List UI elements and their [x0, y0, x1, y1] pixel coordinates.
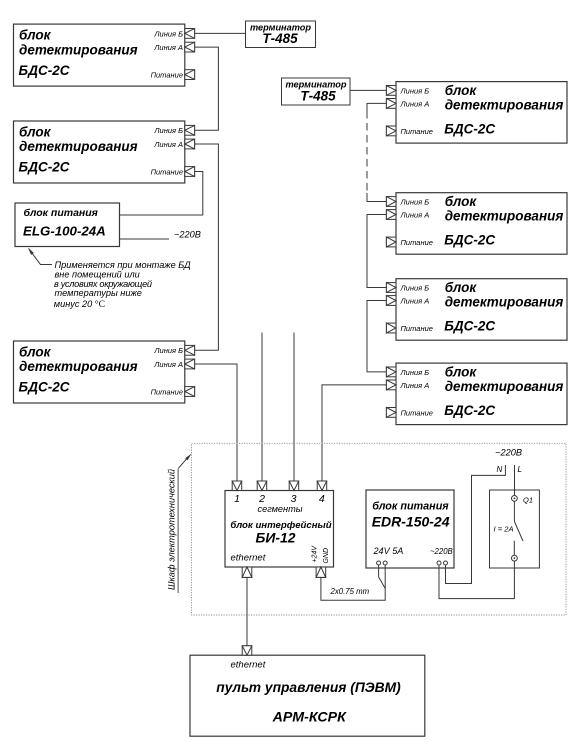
svg-text:блок: блок [19, 124, 52, 139]
пульт управления (ПЭВМ) АРМ-КСРК [190, 655, 425, 736]
svg-text:Питание: Питание [151, 167, 183, 176]
pin Линия А (block2) [185, 139, 195, 149]
блок детектирования БДС-2С right #1 [396, 82, 567, 144]
wire rblock1 Линия А to rblock2 Линия Б (dashed middle) [367, 103, 386, 111]
wire rblock3 Линия А to rblock4 Линия Б [367, 301, 386, 372]
svg-text:блок: блок [445, 83, 478, 98]
svg-text:L: L [518, 465, 522, 474]
note text (application note) [54, 260, 191, 310]
svg-text:пульт управления (ПЭВМ): пульт управления (ПЭВМ) [216, 680, 401, 695]
svg-text:4: 4 [319, 493, 325, 505]
svg-text:БДС-2С: БДС-2С [19, 63, 70, 78]
svg-text:БДС-2С: БДС-2С [19, 380, 70, 395]
wire block2 Линия А to block3 Линия Б [195, 144, 219, 350]
svg-text:блок: блок [19, 344, 52, 359]
svg-text:ethernet: ethernet [231, 659, 266, 670]
Q1 switch blade [514, 501, 523, 555]
connector segment 4 (БИ-12 top) [317, 481, 327, 491]
wire block2 Питание to ELG [120, 172, 203, 216]
svg-text:БДС-2С: БДС-2С [444, 403, 495, 418]
блок детектирования БДС-2С right #4 [396, 363, 567, 425]
svg-text:Линия А: Линия А [153, 360, 183, 369]
блок питания EDR-150-24 [366, 490, 454, 568]
svg-text:БИ-12: БИ-12 [256, 530, 296, 546]
svg-text:~220В: ~220В [430, 547, 453, 556]
svg-text:минус 20 °С: минус 20 °С [54, 299, 105, 310]
wire 24V from EDR to БИ-12 +24V GND [321, 565, 385, 600]
pin Линия А (rblock1) [386, 99, 396, 109]
svg-text:N: N [497, 465, 503, 474]
svg-text:детектирования: детектирования [445, 295, 564, 310]
svg-text:детектирования: детектирования [445, 98, 564, 113]
svg-text:Питание: Питание [401, 127, 433, 136]
wire stub segment 2 [261, 333, 263, 482]
connector segment 3 (БИ-12 top) [289, 481, 299, 491]
pin Линия Б (block3) [185, 345, 195, 355]
connector segment 1 (БИ-12 top) [232, 481, 242, 491]
svg-text:Т-485: Т-485 [300, 89, 336, 104]
pin Линия Б (rblock1) [386, 86, 396, 96]
блок питания ELG-100-24A [15, 203, 120, 247]
pin Питание (rblock3) [386, 323, 396, 333]
wire block1 Линия Б to терминатор1 [195, 32, 246, 34]
pin Питание (block3) [185, 387, 195, 397]
wire ~220В stub from ELG [120, 238, 170, 240]
терминатор Т-485 #1 [246, 21, 316, 48]
svg-text:блок питания: блок питания [372, 501, 449, 513]
svg-text:детектирования: детектирования [19, 359, 138, 374]
svg-text:Линия Б: Линия Б [400, 197, 430, 206]
svg-text:24V 5A: 24V 5A [373, 546, 404, 556]
шкаф электротехнический dashed cabinet [192, 443, 567, 615]
svg-text:БДС-2С: БДС-2С [19, 160, 70, 175]
wire right block4 Линия А to БИ-12 segment 4 [322, 385, 386, 481]
svg-text:ethernet: ethernet [231, 553, 266, 564]
wire ethernet БИ-12 to пульт [246, 577, 248, 646]
wire block3 Линия А to БИ-12 segment 1 [195, 364, 237, 481]
svg-text:Линия А: Линия А [400, 210, 430, 219]
svg-text:ELG-100-24A: ELG-100-24A [23, 224, 106, 239]
svg-text:блок питания: блок питания [24, 207, 98, 219]
wire stub segment 3 [293, 333, 295, 482]
svg-text:~220В: ~220В [174, 230, 201, 240]
leader arrow to note [29, 249, 53, 265]
svg-text:Питание: Питание [151, 387, 183, 396]
svg-text:~220В: ~220В [495, 448, 522, 458]
svg-text:блок: блок [445, 365, 478, 380]
connector segment 2 (БИ-12 top) [257, 481, 267, 491]
pin Питание (rblock1) [386, 126, 396, 136]
pin Линия А (rblock2) [386, 210, 396, 220]
wire L from Q1 to EDR ~220В [439, 561, 514, 599]
connector ethernet (пульт) [242, 646, 252, 655]
wire терминатор2 to rblock1 Линия Б [350, 89, 386, 91]
блок детектирования БДС-2С #2 (mid-left) [14, 121, 185, 183]
svg-text:I = 2A: I = 2A [494, 525, 514, 534]
svg-text:Линия Б: Линия Б [153, 126, 183, 135]
wire rblock2 Линия А to rblock3 Линия Б [367, 215, 386, 288]
svg-text:сегменты: сегменты [257, 504, 302, 514]
svg-text:Линия А: Линия А [153, 140, 183, 149]
svg-text:БДС-2С: БДС-2С [444, 122, 495, 137]
svg-text:детектирования: детектирования [445, 379, 564, 394]
pin Линия Б (rblock3) [386, 283, 396, 293]
wire L input [514, 465, 516, 495]
svg-text:EDR-150-24: EDR-150-24 [372, 514, 450, 530]
svg-text:Линия Б: Линия Б [400, 368, 430, 377]
connector ethernet (БИ-12 bottom) [242, 567, 252, 577]
arrow to cabinet corner [178, 459, 186, 468]
svg-text:Т-485: Т-485 [262, 31, 298, 46]
svg-text:детектирования: детектирования [19, 42, 138, 57]
svg-text:2x0.75 mm: 2x0.75 mm [330, 587, 370, 596]
svg-text:температуры ниже: температуры ниже [55, 288, 142, 298]
автомат Q1 box [490, 490, 540, 568]
svg-text:детектирования: детектирования [19, 139, 138, 154]
pin Питание (rblock4) [386, 408, 396, 418]
svg-text:БДС-2С: БДС-2С [444, 319, 495, 334]
svg-text:Питание: Питание [401, 238, 433, 247]
svg-text:Линия Б: Линия Б [400, 86, 430, 95]
wire block1 Линия А to block2 Линия Б [195, 47, 219, 130]
svg-text:БДС-2С: БДС-2С [444, 233, 495, 248]
pin Линия Б (block1) [185, 29, 195, 39]
блок детектирования БДС-2С right #3 [396, 279, 567, 341]
svg-text:Шкаф электротехнический: Шкаф электротехнический [167, 469, 177, 590]
pin Линия А (block3) [185, 359, 195, 369]
terminal 24V (EDR) [377, 561, 388, 565]
pin Питание (rblock2) [386, 237, 396, 247]
блок детектирования БДС-2С #1 (top-left) [14, 24, 185, 86]
Q1 bottom terminal [512, 555, 518, 561]
терминатор Т-485 #2 [282, 78, 351, 105]
svg-text:Линия Б: Линия Б [400, 283, 430, 292]
svg-text:Линия А: Линия А [400, 296, 430, 305]
pin Линия А (rblock3) [386, 296, 396, 306]
svg-text:блок: блок [445, 194, 478, 209]
svg-text:блок: блок [19, 28, 52, 43]
svg-text:детектирования: детектирования [445, 209, 564, 224]
connector +24V GND (БИ-12 bottom) [316, 567, 326, 577]
pin Линия Б (block2) [185, 125, 195, 135]
блок детектирования БДС-2С right #2 [396, 193, 567, 255]
pin Линия Б (rblock4) [386, 367, 396, 377]
pin Питание (block1) [185, 70, 195, 80]
svg-text:Питание: Питание [151, 71, 183, 80]
pin Линия Б (rblock2) [386, 197, 396, 207]
svg-text:Линия А: Линия А [400, 381, 430, 390]
Q1 top terminal [512, 496, 518, 502]
wire N input [446, 465, 506, 584]
svg-text:Питание: Питание [401, 408, 433, 417]
блок интерфейсный БИ-12 [225, 491, 334, 568]
svg-text:АРМ-КСРК: АРМ-КСРК [272, 710, 347, 726]
блок детектирования БДС-2С #3 (bottom-left) [14, 341, 185, 403]
svg-text:блок: блок [445, 280, 478, 295]
svg-text:Линия А: Линия А [153, 43, 183, 52]
pin Линия А (rblock4) [386, 380, 396, 390]
terminal ~220В (EDR) [437, 561, 448, 565]
svg-text:Линия А: Линия А [400, 99, 430, 108]
pin Питание (block2) [185, 167, 195, 177]
svg-text:Q1: Q1 [523, 495, 533, 504]
svg-text:1: 1 [234, 493, 240, 505]
svg-text:GND: GND [323, 548, 330, 564]
pin Линия А (block1) [185, 42, 195, 52]
svg-text:Линия Б: Линия Б [153, 346, 183, 355]
svg-text:Питание: Питание [401, 324, 433, 333]
svg-text:Линия Б: Линия Б [153, 29, 183, 38]
svg-text:+24V: +24V [312, 545, 319, 563]
